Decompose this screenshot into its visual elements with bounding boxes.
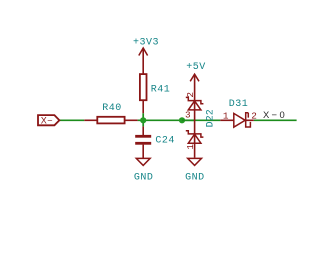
power +5V: [186, 62, 206, 82]
wire main horizontal middle segment: [138, 119, 221, 121]
top diode triangle: [188, 101, 201, 110]
diode D31: [220, 99, 257, 127]
power +3V3: [133, 37, 159, 74]
schottky cathode bar: [246, 113, 251, 127]
svg-text:D31: D31: [229, 99, 249, 110]
body vertical lead: [194, 74, 196, 158]
svg-text:2: 2: [251, 110, 257, 121]
svg-text:2: 2: [185, 92, 196, 98]
ground GND (D22 branch): [185, 158, 205, 183]
node B junction: [179, 117, 185, 123]
pin 2 lead: [246, 119, 254, 121]
svg-text:+5V: +5V: [186, 62, 206, 73]
bottom zener cathode bar: [186, 131, 204, 137]
svg-text:R40: R40: [102, 103, 122, 114]
bottom diode triangle: [188, 134, 201, 143]
resistor R41: [140, 74, 170, 113]
svg-text:R41: R41: [151, 84, 171, 95]
svg-text:X: X: [41, 116, 47, 126]
svg-text:1: 1: [185, 144, 196, 150]
svg-text:C24: C24: [155, 136, 175, 147]
wire vertical at node A: [142, 113, 144, 126]
triangle: [234, 113, 245, 127]
pin 3 lead: [182, 119, 195, 121]
wire main horizontal right segment: [254, 119, 297, 121]
svg-text:3: 3: [185, 110, 191, 121]
node A junction: [140, 117, 146, 123]
wire main horizontal left segment: [59, 119, 84, 121]
pin 1 lead: [220, 119, 234, 121]
svg-text:X: X: [263, 109, 270, 120]
svg-text:GND: GND: [185, 172, 205, 183]
top zener cathode bar: [186, 97, 204, 103]
svg-text:+3V3: +3V3: [133, 37, 159, 48]
dual zener diode D22: [182, 74, 217, 158]
svg-text:−: −: [47, 116, 52, 126]
svg-text:D22: D22: [206, 109, 217, 127]
global label X-: [38, 115, 59, 125]
svg-text:0: 0: [280, 109, 285, 120]
svg-text:GND: GND: [134, 172, 154, 183]
svg-text:−: −: [272, 109, 278, 120]
capacitor C24: [135, 126, 175, 158]
resistor R40: [84, 103, 137, 124]
svg-text:1: 1: [223, 110, 229, 121]
ground GND (C24 branch): [134, 158, 154, 183]
